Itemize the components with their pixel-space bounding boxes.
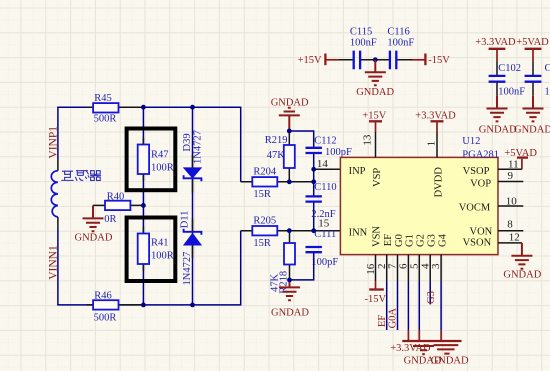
svg-text:15R: 15R [253, 238, 271, 249]
U12 pin name G4 [437, 233, 448, 247]
svg-text:INN: INN [349, 227, 368, 238]
label R40 [107, 191, 125, 202]
label 100nF value [350, 38, 377, 49]
svg-text:R47: R47 [151, 149, 169, 160]
label pin 14 [317, 158, 329, 170]
label pin 13 [362, 134, 374, 146]
svg-text:G4: G4 [437, 233, 448, 247]
label 100nF value [498, 87, 525, 98]
label 1N4727 value [182, 252, 193, 286]
zener diode D11 [184, 229, 202, 245]
net label G3 [426, 291, 437, 304]
label 100R value [151, 250, 174, 261]
wire mid vertical through R47 R41 [142, 107, 144, 305]
resistor R45 [93, 103, 118, 112]
label D39 [182, 133, 193, 151]
label pin 2 [376, 264, 388, 270]
ground GNDAD below R218 [279, 280, 300, 300]
svg-text:9: 9 [508, 170, 514, 182]
svg-text:GNDAD: GNDAD [271, 98, 309, 109]
pin 14 wire INP [314, 168, 341, 170]
pin 12 wire VSON [498, 242, 522, 244]
label 500R value [94, 114, 117, 125]
label PGA281 [462, 150, 499, 161]
svg-text:+3.3VAD: +3.3VAD [390, 343, 431, 354]
label GNDAD [271, 307, 309, 318]
svg-text:+5VAD: +5VAD [504, 148, 537, 159]
svg-text:+5VAD: +5VAD [516, 37, 549, 48]
svg-text:GNDAD: GNDAD [514, 124, 550, 135]
label GNDAD [503, 270, 541, 281]
label R219 [265, 135, 288, 146]
svg-text:11: 11 [508, 158, 519, 170]
pin 7 wire G0A [397, 255, 399, 330]
label pin 12 [509, 232, 520, 244]
svg-text:100nF: 100nF [387, 38, 414, 49]
svg-text:R219: R219 [265, 135, 288, 146]
capacitor C116 [390, 51, 396, 70]
svg-text:C112: C112 [314, 136, 336, 147]
svg-text:G3: G3 [427, 234, 438, 247]
label C111 [314, 229, 336, 240]
U12 pin name INP [349, 166, 366, 177]
power port +15V pin13 [369, 121, 382, 132]
wire R204 node to INP node [289, 181, 313, 183]
inductor label 互感器 [61, 170, 101, 181]
capacitor C102 [489, 76, 506, 82]
label C103 clipped [545, 63, 550, 74]
label pin 10 [506, 195, 518, 207]
capacitor C112 [306, 148, 322, 153]
svg-text:C116: C116 [387, 27, 409, 38]
U12 pin name G2 [416, 234, 427, 247]
U12 pin name VOCM [459, 202, 491, 213]
pin 15 wire INN [289, 230, 340, 232]
capacitor C111 [306, 247, 322, 252]
label pin 8 [507, 219, 513, 231]
U12 pin name VSP [372, 168, 383, 187]
pin 2 wire EF [386, 255, 388, 330]
label R47 [151, 149, 169, 160]
capacitor C110 [306, 196, 322, 201]
label C102 [498, 63, 521, 74]
label C110 [314, 182, 336, 193]
label 1N4727 value [193, 130, 204, 164]
resistor R40 pins [93, 204, 143, 206]
svg-text:R204: R204 [253, 166, 277, 177]
U12 pin name INN [349, 227, 368, 238]
svg-text:15: 15 [318, 218, 330, 230]
svg-text:0R: 0R [104, 214, 116, 225]
svg-text:VSOP: VSOP [463, 166, 490, 177]
svg-text:-15V: -15V [365, 294, 387, 305]
label 47K value [267, 150, 286, 161]
label pin 9 [508, 170, 514, 182]
resistor R219 [284, 145, 295, 168]
U12 pin name G0 [394, 234, 405, 247]
resistor R205 [252, 226, 277, 235]
label R204 [253, 166, 277, 177]
junction dots left section [141, 105, 195, 308]
label pin 4 [419, 263, 431, 269]
node VINP1 label [48, 126, 60, 159]
label C115 [350, 27, 372, 38]
power port +5VAD pin11 [517, 158, 528, 170]
ground GNDAD below C115 C116 [365, 60, 386, 85]
wire C112 to INP node [313, 154, 315, 182]
svg-text:R218: R218 [279, 271, 290, 294]
svg-text:C102: C102 [498, 63, 521, 74]
label pin 1 [425, 141, 437, 147]
resistor R218 [284, 243, 295, 265]
svg-text:GNDAD: GNDAD [271, 307, 309, 318]
svg-text:12: 12 [509, 232, 520, 244]
svg-text:15R: 15R [253, 189, 271, 200]
svg-text:G0: G0 [394, 234, 405, 247]
pin 5 wire [418, 255, 420, 341]
capacitor C110 pins [313, 182, 315, 231]
capacitor C103 pins [532, 62, 534, 95]
capacitor C102 pins [496, 62, 498, 95]
svg-text:+15V: +15V [362, 110, 386, 121]
resistor R205 pins [241, 230, 290, 232]
svg-text:14: 14 [317, 158, 329, 170]
inductor L1 互感器 pins [57, 159, 59, 229]
label 2.2nF value [311, 209, 335, 220]
resistor R45 pins [87, 106, 144, 108]
ground GNDAD above R219 (inverted) [279, 108, 300, 131]
svg-text:R45: R45 [94, 93, 112, 104]
node VINN1 label [48, 245, 60, 280]
svg-text:D39: D39 [182, 133, 193, 151]
resistor R40 [105, 201, 130, 210]
svg-text:C10: C10 [545, 63, 550, 74]
svg-text:EF: EF [383, 234, 394, 246]
label GNDAD [356, 87, 394, 98]
wire left rail inductor to VINN1 [57, 229, 59, 305]
svg-text:100nF: 100nF [498, 87, 525, 98]
power port -15V pin16 [369, 281, 384, 290]
svg-text:+3.3VAD: +3.3VAD [415, 110, 456, 121]
svg-text:500R: 500R [94, 313, 117, 324]
svg-text:DVDD: DVDD [433, 167, 444, 198]
wire left rail VINP1 to inductor [57, 107, 59, 159]
label 100nF value [387, 38, 414, 49]
junction dots middle section [287, 129, 316, 283]
svg-text:8: 8 [507, 219, 513, 231]
U12 pin name VSN [371, 226, 382, 247]
label GNDAD second [431, 356, 469, 367]
resistor R41 pins [142, 227, 144, 272]
wire top rail [57, 107, 241, 182]
pin 4 wire G3 [429, 255, 431, 305]
pin 8 wire VON [498, 230, 523, 232]
svg-text:+3.3VAD: +3.3VAD [475, 37, 516, 48]
label GNDAD [271, 98, 309, 109]
label pin 11 [508, 158, 519, 170]
svg-text:GNDAD: GNDAD [503, 270, 541, 281]
label pin 7 [387, 263, 399, 269]
svg-text:-15V: -15V [428, 55, 450, 66]
svg-text:GNDAD: GNDAD [75, 233, 113, 244]
label C116 [387, 27, 409, 38]
pin 11 wire VSOP [498, 168, 522, 170]
svg-text:1N4727: 1N4727 [182, 252, 193, 286]
resistor R204 [252, 177, 277, 186]
capacitor C115 pins [339, 59, 375, 61]
ground GNDAD pin12 [511, 243, 532, 269]
label pin 3 [430, 263, 442, 269]
inductor L1 coil [51, 171, 58, 217]
black highlight box around R41 [127, 218, 176, 282]
resistor R204 pins [241, 181, 290, 183]
U12 pin name VSON [463, 238, 492, 249]
ground GNDAD at R40 [83, 205, 104, 231]
label pin 5 [408, 263, 420, 269]
svg-text:EF: EF [377, 315, 388, 327]
svg-text:R40: R40 [107, 191, 125, 202]
pin 3 wire [440, 255, 442, 341]
label 500R value [94, 313, 117, 324]
svg-text:10: 10 [545, 87, 550, 98]
svg-text:G1: G1 [405, 234, 416, 247]
wire C111 to ground node [290, 253, 314, 280]
label 100nF value clipped [545, 87, 550, 98]
svg-text:R41: R41 [151, 237, 169, 248]
resistor R41 [138, 234, 149, 265]
zener diode D39 [184, 168, 202, 181]
pin 16 wire VSN [375, 255, 377, 281]
label 47K value [269, 274, 280, 293]
net label EF [377, 315, 388, 327]
op-amp U12 PGA281 body [340, 157, 498, 254]
U12 pin name VSOP [463, 166, 490, 177]
svg-text:100pF: 100pF [325, 147, 352, 158]
label 100pF value [311, 257, 338, 268]
net label G0A [388, 308, 399, 329]
resistor R46 [93, 300, 118, 309]
zener diode D39 pins and wire [192, 107, 194, 305]
svg-text:13: 13 [362, 134, 374, 146]
label C112 [314, 136, 336, 147]
label GNDAD [75, 233, 113, 244]
svg-text:VON: VON [470, 226, 493, 237]
resistor R219 pins [288, 131, 290, 182]
svg-text:VOCM: VOCM [459, 202, 491, 213]
resistor R46 pins [87, 304, 144, 306]
svg-text:VSN: VSN [371, 226, 382, 247]
svg-text:1N4727: 1N4727 [193, 130, 204, 164]
label D11 [180, 211, 191, 229]
label 15R value [253, 189, 271, 200]
svg-text:U12: U12 [462, 136, 480, 147]
pin 9 wire VOP [498, 181, 523, 183]
black highlight box around R47 [127, 129, 176, 191]
power port -15V top [413, 54, 426, 66]
pin 1 wire DVDD [436, 132, 438, 157]
wire GNDAD node to C112 [289, 131, 313, 147]
U12 pin name G3 [427, 234, 438, 247]
U12 pin name VON [470, 226, 493, 237]
label R45 [94, 93, 112, 104]
label GNDAD [404, 356, 442, 367]
power port +3.3VAD bar bottom [402, 340, 461, 342]
ground GNDAD below C102 [487, 95, 508, 121]
svg-text:GNDAD: GNDAD [431, 356, 469, 367]
svg-text:+15V: +15V [298, 55, 322, 66]
junction dot C115 C116 [373, 57, 378, 62]
wire bottom rail [57, 231, 241, 305]
ground GNDAD pin5 taper [413, 346, 434, 354]
U12 pin name VOP [470, 178, 491, 189]
capacitor C103 [525, 76, 542, 82]
power port +15V top [298, 55, 322, 66]
ground GNDAD pin3 [434, 345, 459, 354]
label GNDAD [514, 124, 550, 135]
svg-text:PGA281: PGA281 [462, 150, 499, 161]
label pin 15 [318, 218, 330, 230]
ground GNDAD below C103 [523, 95, 544, 121]
power port +5VAD top far right [516, 37, 549, 48]
power port +3.3VAD top right [475, 37, 516, 48]
U12 pin name G1 [405, 234, 416, 247]
svg-text:100R: 100R [151, 162, 174, 173]
svg-text:100pF: 100pF [311, 257, 338, 268]
svg-text:R205: R205 [253, 215, 276, 226]
pin 10 wire VOCM [498, 205, 523, 207]
label 0R value [104, 214, 116, 225]
label 100pF value [325, 147, 352, 158]
label R205 [253, 215, 276, 226]
label 100R value [151, 162, 174, 173]
svg-text:G0A: G0A [388, 308, 399, 329]
capacitor C115 [354, 51, 360, 70]
pin 6 wire [407, 255, 409, 341]
U12 pin name DVDD [433, 167, 444, 198]
label R218 [279, 271, 290, 294]
svg-text:1: 1 [425, 141, 437, 147]
svg-text:500R: 500R [94, 114, 117, 125]
U12 pin name EF [383, 234, 394, 246]
svg-text:G2: G2 [416, 234, 427, 247]
svg-text:R46: R46 [94, 290, 112, 301]
power port +3.3VAD pin1 [431, 121, 444, 132]
svg-text:GNDAD: GNDAD [479, 124, 517, 135]
capacitor C116 pins [375, 59, 412, 61]
svg-text:C115: C115 [350, 27, 372, 38]
resistor R47 [138, 145, 149, 175]
svg-text:C110: C110 [314, 182, 336, 193]
svg-text:VSON: VSON [463, 238, 492, 249]
label R41 [151, 237, 169, 248]
resistor R218 pins [289, 231, 291, 280]
svg-text:47K: 47K [267, 150, 286, 161]
svg-text:10: 10 [506, 195, 518, 207]
label GNDAD [479, 124, 517, 135]
svg-text:3: 3 [430, 263, 442, 269]
svg-text:D11: D11 [180, 211, 191, 229]
label R46 [94, 290, 112, 301]
svg-text:VOP: VOP [470, 178, 491, 189]
label pin 16 [365, 263, 377, 275]
svg-text:G3: G3 [426, 291, 437, 304]
svg-text:VSP: VSP [372, 168, 383, 187]
svg-text:INP: INP [349, 166, 366, 177]
label U12 [462, 136, 480, 147]
svg-text:100nF: 100nF [350, 38, 377, 49]
svg-text:100R: 100R [151, 250, 174, 261]
svg-text:C111: C111 [314, 229, 336, 240]
label pin 6 [398, 263, 410, 269]
resistor R47 pins [142, 138, 144, 182]
svg-text:GNDAD: GNDAD [356, 87, 394, 98]
label 15R value [253, 238, 271, 249]
pin 13 wire VSP [375, 132, 377, 157]
